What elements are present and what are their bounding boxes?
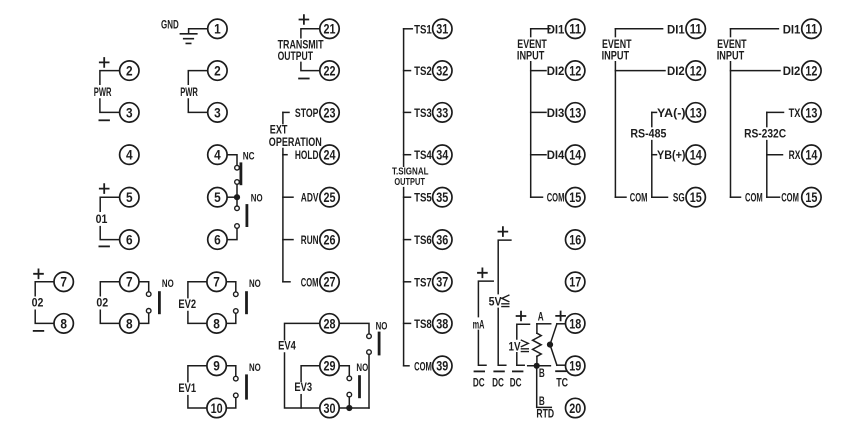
svg-text:EV4: EV4 <box>278 338 296 352</box>
svg-text:COM: COM <box>414 359 432 373</box>
wire terminal 7 to 02 <box>35 282 54 296</box>
svg-text:NO: NO <box>356 362 368 374</box>
svg-text:14: 14 <box>690 147 702 163</box>
wire bus lower <box>530 62 532 197</box>
svg-text:02: 02 <box>96 296 108 310</box>
terminal 15 (block 3) <box>802 188 821 207</box>
svg-text:7: 7 <box>213 274 220 290</box>
wire stub COM <box>615 196 626 198</box>
svg-text:17: 17 <box>569 274 581 290</box>
wire stub terminal 19 <box>557 364 566 366</box>
svg-text:6: 6 <box>214 232 221 248</box>
svg-text:PWR: PWR <box>180 85 198 99</box>
polarity - <box>99 119 109 121</box>
NO contact dot lower (28) <box>367 350 372 355</box>
wire terminal 7 to EV2 <box>188 282 207 298</box>
svg-text:22: 22 <box>324 63 336 79</box>
wire NO contact down (29) <box>348 397 350 408</box>
svg-text:COM: COM <box>301 275 319 289</box>
wire terminal 21 transmit + <box>301 29 320 38</box>
wire input 5V upper <box>498 240 511 294</box>
polarity + <box>34 269 43 278</box>
svg-text:20: 20 <box>569 400 581 416</box>
svg-text:NO: NO <box>162 278 174 290</box>
wire stub TS6 <box>404 239 411 241</box>
wire terminal 7 to 02 <box>100 282 119 296</box>
terminal 8 (EV2) <box>207 314 226 333</box>
wire stub DI1 <box>731 28 779 30</box>
NO contact dot upper (28) <box>367 334 372 339</box>
terminal 11 (block 1) <box>566 19 585 38</box>
svg-text:3: 3 <box>214 104 221 120</box>
svg-text:30: 30 <box>324 400 336 416</box>
svg-text:5: 5 <box>126 189 133 205</box>
svg-text:3: 3 <box>126 104 133 120</box>
svg-text:NO: NO <box>249 362 261 374</box>
wire input mA lower <box>478 330 486 365</box>
wire stub HOLD <box>283 154 287 156</box>
svg-text:GND: GND <box>161 17 179 31</box>
svg-text:13: 13 <box>690 104 702 120</box>
svg-text:DI2: DI2 <box>547 64 565 78</box>
svg-text:HOLD: HOLD <box>295 148 319 162</box>
NO contact dot upper <box>146 292 151 297</box>
wire bus lower <box>730 62 732 197</box>
terminal 15 (block 2) <box>686 188 705 207</box>
svg-text:9: 9 <box>213 358 220 374</box>
svg-text:mA: mA <box>473 317 485 331</box>
terminal 31 <box>433 19 452 38</box>
svg-text:01: 01 <box>96 212 108 226</box>
terminal 7 (EV2) <box>207 272 226 291</box>
svg-text:35: 35 <box>436 189 448 205</box>
wire stub TS3 <box>404 111 411 113</box>
svg-text:DI1: DI1 <box>783 22 801 36</box>
terminal 26 <box>320 230 339 249</box>
wire stub COM <box>731 196 741 198</box>
svg-text:EV3: EV3 <box>294 380 312 394</box>
svg-text:NO: NO <box>251 193 263 205</box>
wire EV1 to terminal 10 <box>188 396 207 408</box>
wire terminal 2 to PWR <box>188 71 207 85</box>
wire stub TX <box>767 111 784 113</box>
terminal 4 <box>120 145 139 164</box>
NO contact bar <box>245 206 248 226</box>
wire bus lower <box>282 149 284 282</box>
terminal 9 (EV1) <box>207 356 226 375</box>
terminal 19 <box>566 356 585 375</box>
wire stub SG <box>652 196 668 198</box>
terminal 14 (block 2) <box>686 145 705 164</box>
svg-text:34: 34 <box>436 147 448 163</box>
wire PWR to terminal 3 <box>188 99 207 112</box>
terminal 12 (block 2) <box>686 61 705 80</box>
svg-text:RUN: RUN <box>301 233 319 247</box>
wire bus upper <box>403 29 405 166</box>
svg-text:11: 11 <box>690 21 702 37</box>
wire stub RX <box>767 154 783 156</box>
svg-text:TS4: TS4 <box>414 148 432 162</box>
NO contact dot upper <box>234 292 239 297</box>
svg-text:26: 26 <box>324 232 336 248</box>
wire terminal 7 to NO contact <box>226 282 236 292</box>
svg-text:DC: DC <box>492 376 504 390</box>
svg-text:2: 2 <box>126 63 133 79</box>
svg-text:13: 13 <box>569 104 581 120</box>
terminal 23 <box>320 103 339 122</box>
polarity - (5V DC) <box>494 370 504 372</box>
svg-text:1V: 1V <box>509 340 521 354</box>
wire NC to common <box>236 184 238 194</box>
svg-text:TS2: TS2 <box>414 64 432 78</box>
svg-text:DI3: DI3 <box>547 106 565 120</box>
svg-text:1: 1 <box>214 21 221 37</box>
svg-text:YB(+): YB(+) <box>657 148 686 162</box>
wire bus lower <box>403 188 405 366</box>
svg-text:INPUT: INPUT <box>717 48 745 62</box>
terminal 7 (02 relay) <box>120 272 139 291</box>
junction at terminal 30 line <box>346 405 352 411</box>
svg-text:11: 11 <box>805 21 817 37</box>
terminal 12 (block 1) <box>566 61 585 80</box>
wire diagonal 19 <box>550 345 557 366</box>
svg-text:36: 36 <box>436 232 448 248</box>
svg-text:TS8: TS8 <box>414 317 432 331</box>
wire RS-485 bus lower <box>651 141 653 198</box>
terminal 15 (block 1) <box>566 188 585 207</box>
wire stub RUN <box>283 239 293 241</box>
wire GND to terminal 1 <box>189 29 208 34</box>
polarity + <box>300 15 309 24</box>
wire terminal 9 to NO contact <box>226 366 236 376</box>
wire stub TS5 <box>404 196 411 198</box>
wire stub DI2 <box>531 70 546 72</box>
wire 02 to terminal 8 <box>35 310 54 323</box>
svg-text:NC: NC <box>243 151 255 163</box>
terminal 16 <box>566 230 585 249</box>
svg-text:8: 8 <box>126 315 133 331</box>
wire NO contact to terminal 10 <box>226 398 236 408</box>
terminal 8 (02 current) <box>54 314 73 333</box>
wire RTD to resistor <box>536 324 538 333</box>
polarity - (mA DC) <box>475 370 485 372</box>
svg-text:RTD: RTD <box>536 407 554 421</box>
svg-text:RS-485: RS-485 <box>630 126 666 140</box>
wire 02 to terminal 8 <box>100 310 119 323</box>
NO contact dot lower <box>235 224 240 229</box>
wire input 1V upper <box>517 324 530 339</box>
polarity + <box>100 58 109 67</box>
terminal 17 <box>566 272 585 291</box>
terminal 39 <box>433 356 452 375</box>
svg-text:7: 7 <box>60 274 67 290</box>
svg-text:A: A <box>538 310 544 324</box>
polarity - <box>299 78 309 80</box>
svg-text:15: 15 <box>805 189 817 205</box>
svg-text:14: 14 <box>805 147 817 163</box>
wire terminal 9 to EV1 <box>188 366 207 382</box>
wire RTD B horizontal <box>528 365 551 367</box>
svg-text:18: 18 <box>569 315 581 331</box>
terminal 29 (EV3) <box>320 356 339 375</box>
terminal 38 <box>433 314 452 333</box>
svg-text:8: 8 <box>213 315 220 331</box>
svg-text:4: 4 <box>214 147 221 163</box>
wire RS-232C bus lower <box>766 141 768 198</box>
svg-text:25: 25 <box>324 189 336 205</box>
svg-text:TS6: TS6 <box>414 233 432 247</box>
NO contact bar (29) <box>358 377 361 397</box>
svg-text:INPUT: INPUT <box>602 48 630 62</box>
wire EV2 to terminal 8 <box>188 312 207 324</box>
wire stub COM (15) <box>767 196 780 198</box>
terminal 5 <box>120 188 139 207</box>
svg-text:COM: COM <box>630 191 648 205</box>
svg-text:23: 23 <box>324 104 336 120</box>
wire 01 to terminal 6 <box>100 227 119 240</box>
svg-text:RS-232C: RS-232C <box>744 126 786 140</box>
wire NO contact down <box>368 354 370 408</box>
terminal 20 <box>566 398 585 417</box>
svg-text:27: 27 <box>324 274 336 290</box>
wire NO contact to terminal 8 <box>139 313 149 323</box>
NC contact dot lower <box>235 180 240 185</box>
svg-text:12: 12 <box>805 63 817 79</box>
wire terminal 29 to NO contact <box>339 366 349 376</box>
terminal 2 <box>120 61 139 80</box>
svg-text:6: 6 <box>126 232 133 248</box>
NO contact bar <box>245 293 248 313</box>
terminal 10 (EV1) <box>207 398 226 417</box>
wire transmit - to terminal 22 <box>301 62 320 70</box>
svg-text:OUTPUT: OUTPUT <box>394 177 425 188</box>
svg-text:B: B <box>539 366 545 380</box>
svg-text:T.SIGNAL: T.SIGNAL <box>392 166 429 177</box>
terminal 1 <box>208 19 227 38</box>
NO contact bar (28) <box>378 333 381 354</box>
svg-text:DC: DC <box>510 376 522 390</box>
wire stub COM <box>404 365 409 367</box>
svg-text:EV2: EV2 <box>178 297 196 311</box>
terminal 11 (block 2) <box>686 19 705 38</box>
svg-text:DC: DC <box>473 376 485 390</box>
svg-text:TX: TX <box>789 106 801 120</box>
svg-text:5: 5 <box>214 189 221 205</box>
polarity + (TC) <box>556 312 565 321</box>
junction common <box>234 194 240 200</box>
wire stub TS2 <box>404 70 411 72</box>
svg-text:RX: RX <box>789 148 801 162</box>
polarity - (TC) <box>556 370 566 372</box>
terminal 12 (block 3) <box>802 61 821 80</box>
polarity + <box>100 184 109 193</box>
terminal 33 <box>433 103 452 122</box>
wire stub DI1 <box>615 28 662 30</box>
wire RS-232C bus upper <box>766 112 768 126</box>
svg-text:15: 15 <box>569 189 581 205</box>
junction B <box>534 363 540 369</box>
wire resistor to B <box>536 356 538 366</box>
svg-text:33: 33 <box>436 104 448 120</box>
terminal 13 (block 3) <box>802 103 821 122</box>
wire stub COM <box>531 196 543 198</box>
wire terminal 29 to EV3 <box>301 366 339 382</box>
svg-text:19: 19 <box>569 358 581 374</box>
polarity - (1V DC) <box>513 370 523 372</box>
terminal 14 (block 1) <box>566 145 585 164</box>
wire bus upper <box>730 29 732 37</box>
svg-text:29: 29 <box>324 358 336 374</box>
terminal 11 (block 3) <box>802 19 821 38</box>
NO contact dot upper <box>234 376 239 381</box>
wire terminal 2 to PWR <box>100 71 120 85</box>
wire stub DI3 <box>531 111 546 113</box>
svg-text:COM: COM <box>745 191 763 205</box>
terminal 2 (AC) <box>208 61 227 80</box>
svg-text:38: 38 <box>436 315 448 331</box>
wire input mA upper <box>478 281 493 317</box>
svg-text:COM: COM <box>781 191 799 205</box>
svg-text:24: 24 <box>324 147 336 163</box>
terminal 5 (relay common) <box>208 188 227 207</box>
NC contact dot upper <box>235 165 240 170</box>
terminal 35 <box>433 188 452 207</box>
svg-text:11: 11 <box>569 21 581 37</box>
svg-text:EV1: EV1 <box>178 381 196 395</box>
terminal 4 (relay NC) <box>208 145 227 164</box>
svg-text:DI1: DI1 <box>547 22 565 36</box>
NO contact dot lower <box>146 309 151 314</box>
svg-text:OPERATION: OPERATION <box>269 135 322 149</box>
svg-text:ADV: ADV <box>301 191 319 205</box>
polarity + <box>478 268 487 277</box>
wire stub TS1 <box>404 28 413 30</box>
NO contact dot lower <box>234 309 239 314</box>
terminal 37 <box>433 272 452 291</box>
svg-text:02: 02 <box>32 296 44 310</box>
NO contact dot lower (29) <box>347 392 352 397</box>
wire terminal 28 to EV4 <box>285 323 320 339</box>
wire common to NO contact <box>236 200 238 206</box>
svg-text:32: 32 <box>436 63 448 79</box>
wire NO to terminal 6 <box>227 228 237 239</box>
terminal 25 <box>320 188 339 207</box>
wire terminal 4 to NC contact <box>227 155 237 166</box>
wire stub TS7 <box>404 281 411 283</box>
svg-text:8: 8 <box>60 315 67 331</box>
terminal 18 <box>566 314 585 333</box>
svg-text:28: 28 <box>324 315 336 331</box>
polarity - <box>99 245 109 247</box>
svg-text:7: 7 <box>126 274 133 290</box>
ground <box>180 34 196 44</box>
terminal 28 (EV4) <box>320 314 339 333</box>
svg-text:DI2: DI2 <box>783 64 801 78</box>
wire bus upper <box>614 29 616 37</box>
wire stub DI4 <box>531 154 546 156</box>
wire bus upper <box>282 112 284 123</box>
wire terminal 5 to 01 <box>100 197 119 211</box>
wire stub TS4 <box>404 154 411 156</box>
wire bus lower <box>614 62 616 197</box>
svg-text:NO: NO <box>249 278 261 290</box>
wire EV3 down <box>300 395 302 408</box>
terminal 24 <box>320 145 339 164</box>
NO contact dot upper (29) <box>347 376 352 381</box>
terminal 14 (block 3) <box>802 145 821 164</box>
terminal 3 (AC) <box>208 103 227 122</box>
svg-text:YA(-): YA(-) <box>657 106 686 120</box>
terminal 21 <box>320 19 339 38</box>
svg-text:10: 10 <box>211 400 223 416</box>
wire PWR to terminal 3 <box>100 99 120 112</box>
svg-text:16: 16 <box>569 232 581 248</box>
wire stub YA <box>652 111 657 113</box>
wire RS-485 bus upper <box>651 112 653 126</box>
terminal 32 <box>433 61 452 80</box>
NO contact dot lower <box>234 393 239 398</box>
wire stub COM <box>283 281 290 283</box>
svg-text:SG: SG <box>673 191 685 205</box>
svg-text:37: 37 <box>436 274 448 290</box>
wire terminal 28 to NO contact <box>339 323 369 333</box>
terminal 8 (02 relay) <box>120 314 139 333</box>
svg-text:12: 12 <box>690 63 702 79</box>
svg-text:TS1: TS1 <box>414 22 432 36</box>
wire stub YB <box>652 154 657 156</box>
terminal 22 <box>320 61 339 80</box>
terminal 13 (block 1) <box>566 103 585 122</box>
NO contact bar <box>245 376 248 398</box>
svg-text:4: 4 <box>126 147 133 163</box>
svg-text:NO: NO <box>376 320 388 332</box>
svg-text:DI4: DI4 <box>547 148 565 162</box>
NO contact dot upper <box>235 206 240 211</box>
resistor RTD element <box>533 333 542 356</box>
wire stub DI1 <box>531 28 550 30</box>
svg-text:OUTPUT: OUTPUT <box>278 49 314 63</box>
svg-text:TS5: TS5 <box>414 191 432 205</box>
junction TC <box>547 342 553 348</box>
svg-text:5V: 5V <box>489 295 502 309</box>
wire terminal 7 to NO contact <box>139 282 149 292</box>
svg-text:31: 31 <box>436 21 448 37</box>
svg-text:39: 39 <box>436 358 448 374</box>
terminal 30 (EV common) <box>320 398 339 417</box>
svg-text:DI1: DI1 <box>667 22 685 36</box>
svg-text:PWR: PWR <box>94 85 112 99</box>
wire terminal 5 to common <box>227 196 237 198</box>
svg-text:2: 2 <box>214 63 221 79</box>
terminal 27 <box>320 272 339 291</box>
wire stub STOP <box>283 111 289 113</box>
terminal 36 <box>433 230 452 249</box>
svg-text:INPUT: INPUT <box>517 48 545 62</box>
wire input 1V lower <box>517 353 524 366</box>
svg-text:13: 13 <box>805 104 817 120</box>
polarity - <box>34 330 44 332</box>
svg-text:COM: COM <box>547 191 565 205</box>
wire RTD A stub <box>537 323 551 325</box>
terminal 34 <box>433 145 452 164</box>
wire EV4 to terminal 30 <box>285 353 320 408</box>
wire stub DI2 <box>731 70 781 72</box>
NO contact bar <box>158 293 161 313</box>
polarity + <box>499 227 508 236</box>
wire input 5V lower <box>498 308 506 365</box>
wire diagonal 18 <box>550 324 557 345</box>
svg-text:DI2: DI2 <box>667 64 685 78</box>
